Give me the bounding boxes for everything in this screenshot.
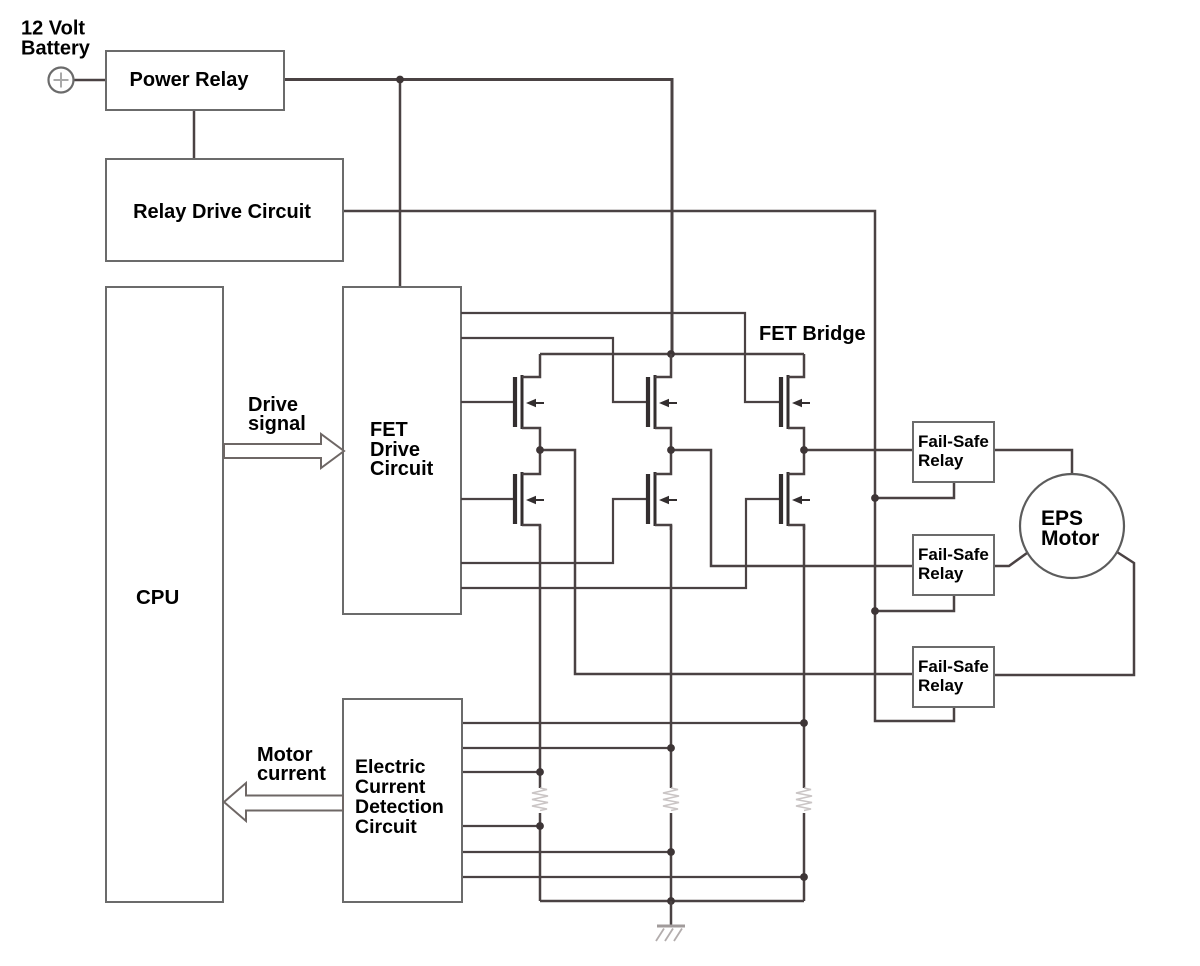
wire shunt column C xyxy=(803,525,806,901)
resistor shunt B xyxy=(663,788,679,811)
wire fail-safe relay 2 coil stub xyxy=(875,595,954,611)
wire battery to power relay xyxy=(74,79,106,82)
box Fail-Safe Relay 1 xyxy=(913,422,994,482)
svg-text:Fail-Safe: Fail-Safe xyxy=(918,657,989,676)
junction phase C xyxy=(800,446,808,454)
svg-text:signal: signal xyxy=(248,413,306,435)
wire phase B to fail-safe relay 2 xyxy=(671,450,913,566)
svg-text:Fail-Safe: Fail-Safe xyxy=(918,432,989,451)
gate feed wire top-right FET xyxy=(461,313,780,402)
svg-text:Relay: Relay xyxy=(918,676,964,695)
current sense wire 3 xyxy=(462,771,540,773)
box Relay Drive Circuit xyxy=(106,159,343,261)
ground xyxy=(656,926,685,941)
gate feed wire bottom-middle FET xyxy=(461,499,646,563)
junction ground bus xyxy=(667,897,675,905)
resistor shunt C xyxy=(796,788,812,811)
transistor Q4 bottom-middle FET xyxy=(648,450,677,530)
svg-text:12 Volt: 12 Volt xyxy=(21,18,85,40)
12 Volt battery terminal xyxy=(49,68,74,93)
wire power relay to relay drive circuit xyxy=(193,110,196,159)
svg-text:Fail-Safe: Fail-Safe xyxy=(918,545,989,564)
transistor Q1 top-left FET xyxy=(515,354,544,450)
motor current arrow ECDC to CPU xyxy=(224,783,343,821)
junction phase A xyxy=(536,446,544,454)
junction supply / middle drain xyxy=(667,350,675,358)
wire branch down to FET drive circuit xyxy=(399,80,402,288)
current sense wire 1 xyxy=(462,722,804,724)
box Power Relay xyxy=(106,51,284,110)
svg-text:Relay Drive Circuit: Relay Drive Circuit xyxy=(133,201,311,223)
box FET Drive Circuit xyxy=(343,287,461,614)
drain supply bus xyxy=(540,353,804,356)
transistor Q6 bottom-right FET xyxy=(781,450,810,530)
drive signal arrow CPU to FET drive circuit xyxy=(224,434,344,468)
transistor Q3 top-middle FET xyxy=(648,354,677,450)
svg-text:Circuit: Circuit xyxy=(355,816,417,838)
svg-text:Motor: Motor xyxy=(1041,527,1099,550)
transistor Q5 top-right FET xyxy=(781,354,810,450)
svg-text:FET: FET xyxy=(370,419,408,441)
svg-text:Relay: Relay xyxy=(918,564,964,583)
gate feed wire bottom-right FET xyxy=(461,499,780,588)
wire fail-safe relay 3 to motor xyxy=(994,552,1134,675)
junction sense 2 xyxy=(667,744,675,752)
current sense wire 4 xyxy=(462,825,540,827)
svg-text:Current: Current xyxy=(355,776,426,798)
wire fail-safe relay 1 to motor xyxy=(994,450,1072,474)
transistor Q2 bottom-left FET xyxy=(515,450,544,530)
wire fail-safe relay 2 to motor xyxy=(994,553,1027,566)
wire shunt column B xyxy=(670,525,673,901)
wire phase A to fail-safe relay 3 xyxy=(540,450,913,674)
junction power branch xyxy=(396,76,404,84)
EPS Motor xyxy=(1020,474,1124,578)
gate feed wire top-left FET xyxy=(461,401,514,403)
svg-text:Power Relay: Power Relay xyxy=(130,69,250,91)
box Fail-Safe Relay 2 xyxy=(913,535,994,595)
svg-text:Electric: Electric xyxy=(355,756,426,778)
gate feed wire bottom-left FET xyxy=(461,498,514,500)
svg-text:Detection: Detection xyxy=(355,796,444,818)
junction relay drive 2 xyxy=(871,607,879,615)
box Electric Current Detection Circuit xyxy=(343,699,462,902)
wire shunt column A xyxy=(539,525,542,901)
junction sense 5 xyxy=(667,848,675,856)
svg-text:current: current xyxy=(257,763,326,785)
wire power relay output to FET bridge supply xyxy=(284,80,672,355)
svg-text:Battery: Battery xyxy=(21,38,91,60)
current sense wire 2 xyxy=(462,747,671,749)
svg-text:Relay: Relay xyxy=(918,451,964,470)
box CPU xyxy=(106,287,223,902)
wire relay drive circuit to fail-safe relays xyxy=(343,211,954,721)
junction relay drive 1 xyxy=(871,494,879,502)
junction sense 3 xyxy=(536,768,544,776)
junction phase B xyxy=(667,446,675,454)
svg-text:CPU: CPU xyxy=(136,586,179,609)
ground bus xyxy=(540,900,804,903)
junction sense 6 xyxy=(800,873,808,881)
svg-text:FET Bridge: FET Bridge xyxy=(759,323,866,345)
wire phase C to fail-safe relay 1 xyxy=(804,449,913,452)
svg-text:Circuit: Circuit xyxy=(370,458,434,480)
current sense wire 5 xyxy=(462,851,671,853)
gate feed wire top-middle FET xyxy=(461,338,646,402)
wire fail-safe relay 1 coil stub xyxy=(875,482,954,498)
box Fail-Safe Relay 3 xyxy=(913,647,994,707)
junction sense 4 xyxy=(536,822,544,830)
resistor shunt A xyxy=(532,788,548,811)
wire ground stub xyxy=(670,901,673,926)
current sense wire 6 xyxy=(462,876,804,878)
junction sense 1 xyxy=(800,719,808,727)
